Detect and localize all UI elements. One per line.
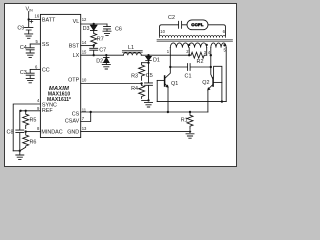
label Q1 — [171, 81, 178, 87]
wire L1 to node A — [141, 54, 149, 56]
label D2 — [96, 58, 103, 64]
pin4 leg — [210, 48, 212, 56]
svg-text:R1: R1 — [181, 118, 188, 124]
schematic white panel with frame — [5, 4, 237, 167]
pin number 9 — [37, 106, 40, 111]
svg-text:BST: BST — [69, 43, 80, 49]
transformer pin number 2 — [186, 49, 189, 54]
base rail wire to pin5 — [157, 100, 226, 102]
pin name CS — [72, 111, 80, 117]
capacitor C2 — [160, 21, 188, 36]
transformer core — [157, 40, 233, 41]
wire OTP pin10 — [81, 82, 143, 84]
pin number 4 — [37, 98, 40, 103]
label R3 — [131, 74, 138, 80]
svg-text:VL: VL — [73, 19, 80, 25]
svg-text:D3: D3 — [83, 26, 90, 32]
capacitor C4 — [26, 44, 34, 53]
label C1 — [185, 74, 192, 80]
pin number 15 — [82, 49, 87, 54]
svg-text:C9: C9 — [17, 26, 24, 32]
ground symbol bottom-left — [16, 155, 24, 159]
label C8 — [7, 130, 14, 136]
label R6 — [30, 140, 37, 146]
ground rail bottom-left — [13, 150, 21, 155]
svg-text:CSAV: CSAV — [65, 119, 80, 125]
pin name BATT — [42, 17, 56, 23]
wire SYNC pin4 to ground rail — [13, 104, 40, 151]
phase dots — [188, 44, 226, 47]
wire VL pin12 — [81, 23, 107, 25]
svg-text:R3: R3 — [131, 74, 138, 80]
pin name GND — [67, 129, 79, 135]
wire CC pin6 — [30, 68, 40, 70]
Q1 base elbow to rail — [156, 80, 158, 101]
resistor R5 — [23, 111, 29, 129]
pin number 8 — [37, 126, 40, 131]
pin number 5 — [36, 39, 39, 44]
label C4 — [20, 45, 27, 51]
pin number 11 — [82, 107, 87, 112]
wire BATT pin16 — [29, 19, 41, 21]
transformer pin number 4 — [208, 50, 211, 55]
pin name CSAV — [65, 119, 80, 125]
pin name REF — [42, 108, 53, 114]
transformer pin number 5 — [224, 47, 227, 52]
label D1 — [153, 58, 160, 64]
pin5 leg to base rail — [225, 48, 227, 102]
label MAX1610 — [48, 92, 70, 98]
label C9 — [17, 26, 24, 32]
pin name SYNC — [42, 102, 57, 108]
ground below C9 — [25, 34, 33, 38]
svg-text:CC: CC — [42, 67, 50, 73]
svg-text:C6: C6 — [115, 26, 122, 32]
svg-text:14: 14 — [82, 40, 87, 45]
resistor R7 — [91, 33, 97, 46]
transformer pin number 3 — [204, 50, 207, 55]
logo MAXIM — [49, 86, 70, 92]
svg-text:13: 13 — [82, 126, 87, 131]
pin3 leg — [206, 48, 208, 56]
ground symbol below C5 — [145, 103, 153, 107]
wire MINDAC pin8 — [25, 130, 41, 132]
label R1 — [181, 118, 188, 124]
label C5 — [146, 73, 153, 79]
label R4 — [131, 86, 138, 92]
transformer pin number 10 — [160, 29, 165, 34]
svg-text:LX: LX — [73, 53, 80, 59]
transformer feedback winding pins 4-5 — [211, 43, 226, 48]
lamp CCFL — [187, 20, 208, 30]
resistor R1 — [187, 112, 193, 129]
capacitor C3 — [26, 69, 34, 78]
svg-text:R5: R5 — [30, 117, 37, 123]
wire REF pin9 — [19, 110, 40, 112]
pin1 leg to Q1 collector — [169, 48, 171, 67]
svg-text:R4: R4 — [131, 86, 138, 92]
pin number 7 — [82, 116, 85, 121]
node wire below D1 — [142, 62, 149, 64]
pin number 6 — [35, 64, 38, 69]
svg-text:C2: C2 — [168, 15, 175, 21]
label C2 — [168, 15, 175, 21]
svg-text:CS: CS — [72, 111, 80, 117]
svg-text:GND: GND — [67, 129, 79, 135]
pin name LX — [73, 53, 80, 59]
background margin — [0, 0, 240, 170]
pin number 14 — [82, 40, 87, 45]
diode D3 — [90, 24, 97, 33]
svg-text:L1: L1 — [128, 45, 134, 51]
transistor Q1 — [157, 67, 170, 112]
wire CSAV pin7 — [81, 112, 91, 122]
svg-text:16: 16 — [35, 14, 40, 19]
label MAX1611 — [47, 97, 71, 103]
pin name MINDAC — [41, 129, 62, 135]
IC U1 MAX1610/MAX1611 box — [40, 14, 80, 137]
pin name VL — [73, 19, 80, 25]
svg-text:C3: C3 — [20, 70, 27, 76]
capacitor C9 — [25, 20, 33, 34]
resistor R3 — [139, 63, 145, 81]
svg-text:R7: R7 — [97, 37, 104, 43]
svg-text:D1: D1 — [153, 58, 160, 64]
pin name CC — [42, 67, 50, 73]
wire GND pin13 — [81, 130, 192, 132]
label R2 — [197, 59, 204, 65]
wire BST pin14 — [81, 44, 95, 46]
transistor Q2 — [208, 55, 222, 112]
svg-text:BATT: BATT — [42, 17, 56, 23]
svg-text:R2: R2 — [197, 59, 204, 65]
svg-text:C4: C4 — [20, 45, 27, 51]
resistor R6 — [20, 132, 29, 151]
svg-text:MINDAC: MINDAC — [41, 129, 62, 135]
pin number 13 — [82, 126, 87, 131]
pin name SS — [42, 42, 50, 48]
svg-text:C8: C8 — [7, 130, 14, 136]
ground below R1 — [186, 134, 194, 138]
svg-text:Q1: Q1 — [171, 81, 178, 87]
diode D1 — [146, 56, 152, 64]
wire lamp to pin6 — [208, 25, 226, 36]
svg-text:R6: R6 — [30, 140, 37, 146]
svg-text:12: 12 — [82, 17, 87, 22]
capacitor C7 — [90, 46, 98, 56]
pin2 leg center tap — [188, 48, 190, 56]
pin number 16 — [35, 14, 40, 19]
label D3 — [83, 26, 90, 32]
pin number 10 — [82, 77, 87, 82]
diode D2 — [104, 55, 110, 64]
transformer primary winding pins 1-2-3 — [170, 43, 206, 48]
svg-text:C5: C5 — [146, 73, 153, 79]
ground below C4 — [26, 53, 34, 57]
svg-text:SS: SS — [42, 42, 50, 48]
resistor R2 — [191, 52, 207, 58]
capacitor C5 — [145, 63, 153, 101]
capacitor C1 wire — [169, 64, 212, 71]
label C3 — [20, 70, 27, 76]
ground below C3 — [26, 78, 34, 82]
svg-text:C1: C1 — [185, 74, 192, 80]
transformer secondary winding pins 10-6 — [160, 35, 226, 37]
label Q2 — [202, 80, 209, 86]
svg-text:11: 11 — [82, 107, 87, 112]
label R7 — [97, 37, 104, 43]
wire LX pin15 — [81, 54, 124, 56]
label C6 — [115, 26, 122, 32]
ground below C6 — [103, 31, 111, 35]
node VIN lead — [28, 12, 30, 21]
svg-text:Q2: Q2 — [202, 80, 209, 86]
svg-text:REF: REF — [42, 108, 53, 114]
svg-text:D2: D2 — [96, 58, 103, 64]
svg-text:15: 15 — [82, 49, 87, 54]
svg-text:10: 10 — [82, 77, 87, 82]
svg-text:C7: C7 — [99, 47, 106, 53]
inductor L1 with core bars — [122, 51, 142, 56]
label C7 — [99, 47, 106, 53]
svg-text:CCFL: CCFL — [191, 22, 204, 27]
resistor R4 — [139, 84, 145, 99]
capacitor C6 — [104, 24, 111, 31]
transformer pin number 1 — [167, 49, 170, 54]
pin name BST — [69, 43, 80, 49]
pin number 12 — [82, 17, 87, 22]
pin name OTP — [68, 77, 79, 83]
svg-text:10: 10 — [160, 29, 165, 34]
junction pin4 node — [210, 54, 212, 56]
capacitor C8 — [16, 111, 24, 151]
label L1 — [128, 45, 134, 51]
svg-text:OTP: OTP — [68, 77, 79, 83]
supply wire to transformer tap — [149, 54, 192, 56]
ground below D2 — [102, 65, 110, 69]
ground rail below R4/C5 — [142, 99, 150, 101]
transformer pin number 6 — [223, 29, 226, 34]
label VIN — [26, 7, 34, 13]
wire SS pin5 — [30, 43, 40, 45]
label R5 — [30, 117, 37, 123]
wire CS pin11 emitter rail — [81, 111, 208, 113]
